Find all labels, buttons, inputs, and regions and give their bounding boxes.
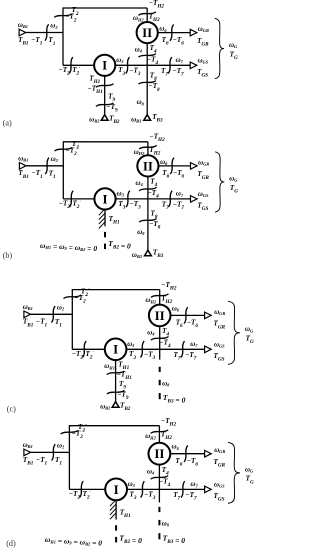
cut mark link 4 fig d xyxy=(151,476,169,480)
wire output GR fig a xyxy=(158,32,197,34)
planetary row II fig b xyxy=(137,155,158,176)
wire link 4 fig d xyxy=(158,464,160,489)
planetary row I fig c xyxy=(105,339,127,361)
output arrow GR fig c xyxy=(205,312,212,319)
svg-text:II: II xyxy=(142,25,152,40)
wire left vertical link 2 fig c xyxy=(71,289,73,349)
dashed link 8 dash 2 fig d xyxy=(158,520,160,525)
cut mark link 3 fig b xyxy=(126,191,130,207)
cut mark link 6 fig c xyxy=(184,307,188,323)
wire output GR fig c xyxy=(171,314,212,316)
wire link 2 prime fig d xyxy=(69,488,105,490)
cut mark link 4 fig a xyxy=(138,54,156,58)
cut mark link 1 fig a xyxy=(45,24,49,40)
wire top frame link 2pp fig a xyxy=(63,7,147,9)
wire link 2 prime fig c xyxy=(72,348,105,350)
wire link 2 prime fig b xyxy=(63,198,95,200)
wire carrier H1 and link 9 fig c xyxy=(115,360,117,403)
cut mark link 9 fig c xyxy=(107,390,125,394)
svg-text:I: I xyxy=(114,482,119,497)
dashed link 9 dash 2 fig b xyxy=(104,244,106,250)
wire link 4 fig c xyxy=(159,326,161,350)
planetary row I fig d xyxy=(105,479,127,501)
cut mark link 2pp fig b xyxy=(55,147,73,151)
wire link 8 stub fig c xyxy=(159,349,161,359)
cut mark link 3 fig d xyxy=(141,481,145,497)
wire input B1 fig c xyxy=(30,313,72,315)
cut mark link 2pp fig c xyxy=(64,295,82,299)
output arrow GR fig a xyxy=(190,29,197,36)
dashed link 8 dash 3 fig d xyxy=(158,533,160,539)
wire input B1 fig a xyxy=(26,32,64,34)
wire link 2 prime fig a xyxy=(63,64,95,66)
wire link 8 stub fig d xyxy=(158,489,160,502)
cut mark link 2 prime fig b xyxy=(69,191,73,207)
wire input B1 fig d xyxy=(30,451,69,453)
cut mark link 2pp fig a xyxy=(54,14,72,18)
dashed link 8 dash 1 fig c xyxy=(159,367,161,372)
svg-text:II: II xyxy=(155,308,165,323)
cut mark link 7 fig b xyxy=(168,191,172,207)
dashed link 9 dash 2 fig d xyxy=(115,537,117,543)
cut mark link 9 fig a xyxy=(96,103,114,107)
wire link 8 fig b xyxy=(147,199,149,251)
wire left vertical link 2 fig b xyxy=(62,141,64,199)
cut mark link 2 prime fig a xyxy=(69,57,73,73)
cut mark link 6 fig a xyxy=(170,24,174,40)
output arrow GS fig d xyxy=(205,486,212,493)
wire left vertical link 2 fig a xyxy=(62,7,64,65)
wire output GR fig b xyxy=(159,165,198,167)
brace output G fig a xyxy=(215,18,224,78)
cut mark link 6 fig b xyxy=(170,158,174,174)
cut mark carrier H1 fig c xyxy=(107,371,125,375)
cut mark link 4 fig b xyxy=(139,187,157,191)
wire input B1 fig b xyxy=(26,165,64,167)
cut mark carrier H2 fig a xyxy=(138,12,156,16)
wire carrier H2 fig b xyxy=(147,142,149,156)
cut mark link 6 fig d xyxy=(184,446,188,462)
dashed link 8 dash 1 fig d xyxy=(158,507,160,512)
wire top frame link 2pp fig d xyxy=(69,425,159,427)
wire carrier H2 fig a xyxy=(146,8,148,23)
output arrow GR fig d xyxy=(205,450,212,457)
svg-text:(d): (d) xyxy=(6,539,16,548)
wire links 3 and 7 fig a xyxy=(115,64,197,66)
input arrow B1 fig a xyxy=(19,29,26,36)
cut mark link 7 fig d xyxy=(181,481,185,497)
planetary row II fig a xyxy=(137,22,158,43)
wire carrier H2 fig d xyxy=(158,426,160,444)
brace output G fig d xyxy=(228,442,240,503)
cut mark carrier H2 fig d xyxy=(151,430,169,434)
svg-text:II: II xyxy=(154,446,164,461)
input arrow B1 fig c xyxy=(24,311,31,318)
svg-text:I: I xyxy=(102,191,107,206)
input arrow B3 fig b xyxy=(145,250,152,256)
wire carrier H1 fig d xyxy=(115,500,117,520)
input arrow B1 fig d xyxy=(24,449,31,456)
cut mark link 3 fig a xyxy=(126,57,130,73)
cut mark link 1 fig b xyxy=(45,158,49,174)
wire links 3 and 7 fig c xyxy=(126,348,211,350)
cut mark link 8 fig a xyxy=(138,81,156,85)
cut mark link 7 fig c xyxy=(181,341,185,357)
cut mark link 2 prime fig c xyxy=(82,341,86,357)
ground hatching H1 fig b xyxy=(99,209,105,228)
wire top frame link 2pp fig c xyxy=(72,289,159,291)
wire link 4 fig b xyxy=(147,176,149,199)
wire output GR fig d xyxy=(170,453,211,455)
svg-text:(b): (b) xyxy=(3,251,13,260)
input arrow B3 fig a xyxy=(144,115,151,121)
wire left vertical link 2 fig d xyxy=(68,425,70,489)
svg-text:I: I xyxy=(102,58,107,73)
cut mark link 3 fig c xyxy=(140,341,144,357)
ground hatching H1 fig d xyxy=(110,500,116,519)
output arrow GS fig c xyxy=(205,346,212,353)
wire top frame link 2pp fig b xyxy=(63,141,148,143)
input arrow B2 fig c xyxy=(112,402,119,408)
wire carrier H1 and link 9 fig a xyxy=(104,75,106,115)
cut mark link 2 prime fig d xyxy=(80,481,84,497)
cut mark link 4 fig c xyxy=(151,337,169,341)
dashed link 8 dash 3 fig c xyxy=(159,393,161,399)
wire carrier H1 fig b xyxy=(104,209,106,226)
wire link 8 fig a xyxy=(146,65,148,115)
wire link 4 fig a xyxy=(146,43,148,66)
dashed link 8 dash 2 fig c xyxy=(159,380,161,385)
cut mark link 2pp fig d xyxy=(61,430,79,434)
input arrow B1 fig b xyxy=(19,163,26,170)
planetary row II fig d xyxy=(149,443,171,465)
planetary row II fig c xyxy=(149,305,171,327)
wire links 3 and 7 fig d xyxy=(127,488,211,490)
output arrow GS fig a xyxy=(190,62,197,69)
cut mark carrier H2 fig b xyxy=(139,145,157,149)
cut mark link 7 fig a xyxy=(168,57,172,73)
input arrow B2 fig a xyxy=(101,115,108,121)
planetary row I fig a xyxy=(94,55,115,76)
svg-text:II: II xyxy=(143,158,153,173)
brace output G fig c xyxy=(228,301,240,364)
dashed link 9 dash 1 fig b xyxy=(104,232,106,237)
cut mark link 8 fig b xyxy=(139,219,157,223)
svg-text:I: I xyxy=(113,342,118,357)
wire links 3 and 7 fig b xyxy=(116,198,198,200)
output arrow GR fig b xyxy=(191,163,198,170)
brace output G fig b xyxy=(215,152,224,212)
svg-text:(c): (c) xyxy=(7,404,16,413)
dashed link 9 dash 1 fig d xyxy=(115,525,117,530)
cut mark link 1 fig c xyxy=(51,306,55,322)
cut mark carrier H1 fig a xyxy=(96,84,114,88)
svg-text:(a): (a) xyxy=(3,118,12,127)
planetary row I fig b xyxy=(94,188,115,209)
wire carrier H2 fig c xyxy=(159,290,161,306)
cut mark carrier H2 fig c xyxy=(151,294,169,298)
output arrow GS fig b xyxy=(191,196,198,203)
cut mark link 1 fig d xyxy=(52,444,56,460)
